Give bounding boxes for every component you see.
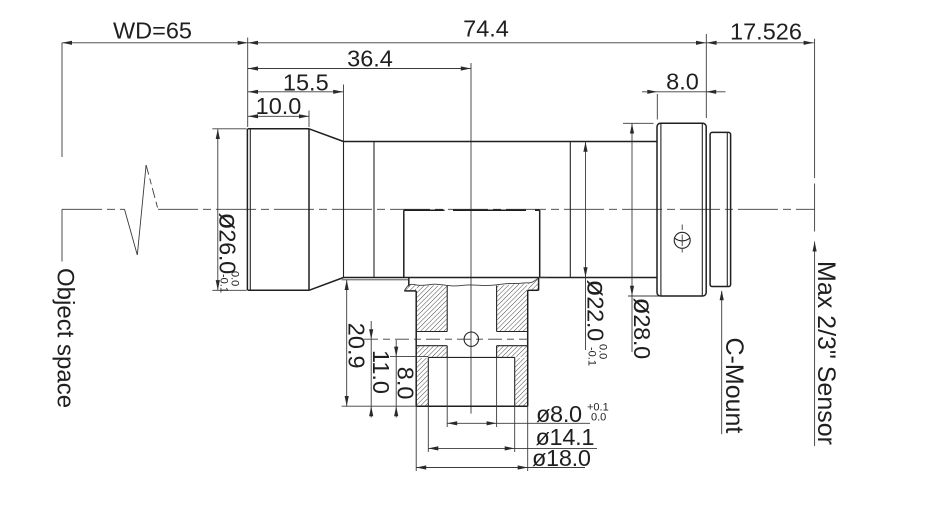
svg-text:15.5: 15.5 [283,69,329,95]
dimension 11.0 [370,321,372,418]
cross hole band top [416,331,447,333]
hatched section left lower wall [417,358,428,406]
dimension 15.5 [248,91,344,93]
front barrel outline [246,129,248,290]
counterbore shoulder [428,356,514,358]
break (wavy) line on boss [404,277,547,291]
boss bottom [416,405,528,407]
boss outer wall right [527,290,529,406]
dimension 8.0 (counterbore depth) [395,340,397,418]
cross hole band bottom [416,345,447,347]
counterbore edge left [427,357,429,406]
mount block upper rectangle [404,209,540,211]
dimension dia 28.0 [631,123,633,352]
dimension 17.526 [706,42,814,44]
dimension 36.4 [248,68,471,70]
sensor plane line [814,39,816,178]
main barrel outline [344,141,658,143]
C-mount flange ring dia28 [657,123,706,296]
svg-text:20.9: 20.9 [343,323,369,369]
dimension dia 18.0 [416,467,585,469]
taper bottom [309,278,344,291]
dimension 8.0 (flange width) [656,94,658,120]
boss flange right lip [538,278,540,291]
junction line A [343,142,345,278]
hatched section left mid wall [417,346,447,357]
hatched section right mid wall [497,346,527,357]
junction line B [373,142,375,278]
extension 20.9 top [342,279,409,281]
hole axis extension line [470,63,472,414]
hatched section right lower wall [515,358,527,406]
dimension dia 8.0 [447,422,590,424]
svg-text:ø8.0: ø8.0 [536,401,582,427]
svg-text:74.4: 74.4 [463,16,509,42]
hatched section left upper wall [417,285,447,331]
taper top [309,129,344,142]
svg-text:C-Mount: C-Mount [720,338,748,434]
bore edge right [496,286,498,332]
set screw symbol [674,232,690,248]
svg-text:10.0: 10.0 [256,93,302,119]
svg-text:36.4: 36.4 [347,46,393,72]
extension lines below boss [415,406,417,471]
centerline (lens axis) [62,208,125,210]
svg-text:ø26.00.0-0.1: ø26.00.0-0.1 [214,213,245,293]
dimension dia 26.0 [217,129,219,290]
svg-text:17.526: 17.526 [730,18,802,44]
svg-text:ø18.0: ø18.0 [532,445,591,471]
cross hole circle [464,332,478,346]
extension 8.0 shoulder [390,356,428,358]
junction line C [569,142,571,278]
hatched section right upper wall [497,283,527,331]
extension 15.5 right [343,85,345,142]
svg-text:8.0: 8.0 [666,68,699,94]
svg-text:WD=65: WD=65 [113,18,192,44]
svg-text:Object space: Object space [52,268,79,408]
boss flange left lip [408,278,410,287]
rear ring (C-mount thread) [710,132,731,286]
svg-text:11.0: 11.0 [368,350,394,394]
dimension 74.4 [248,42,707,44]
boss outer wall left [415,291,417,406]
svg-text:0.0: 0.0 [591,412,606,424]
svg-text:8.0: 8.0 [393,367,419,400]
dimension dia 22.0 [585,142,587,351]
extension line front face up [247,38,249,128]
C-Mount leader [721,291,723,434]
svg-text:ø22.00.0-0.1: ø22.00.0-0.1 [582,280,613,366]
bore edge left [446,286,448,332]
svg-text:Max 2/3" Sensor: Max 2/3" Sensor [812,261,840,445]
break symbol (zigzag) [125,165,147,255]
counterbore edge right [514,357,516,406]
extension line flange rear up [705,34,707,118]
dimension 20.9 [346,280,348,406]
hatched section left lip [405,285,416,290]
object plane line [61,43,63,262]
hatched section right lip [528,279,538,289]
dimension 10.0 [248,115,309,117]
dimension WD=65 [62,42,248,44]
cross hole centerline [364,338,529,340]
dimension dia 14.1 [428,447,597,449]
extension 10.0 right [308,111,310,128]
svg-text:ø28.0: ø28.0 [628,298,659,360]
